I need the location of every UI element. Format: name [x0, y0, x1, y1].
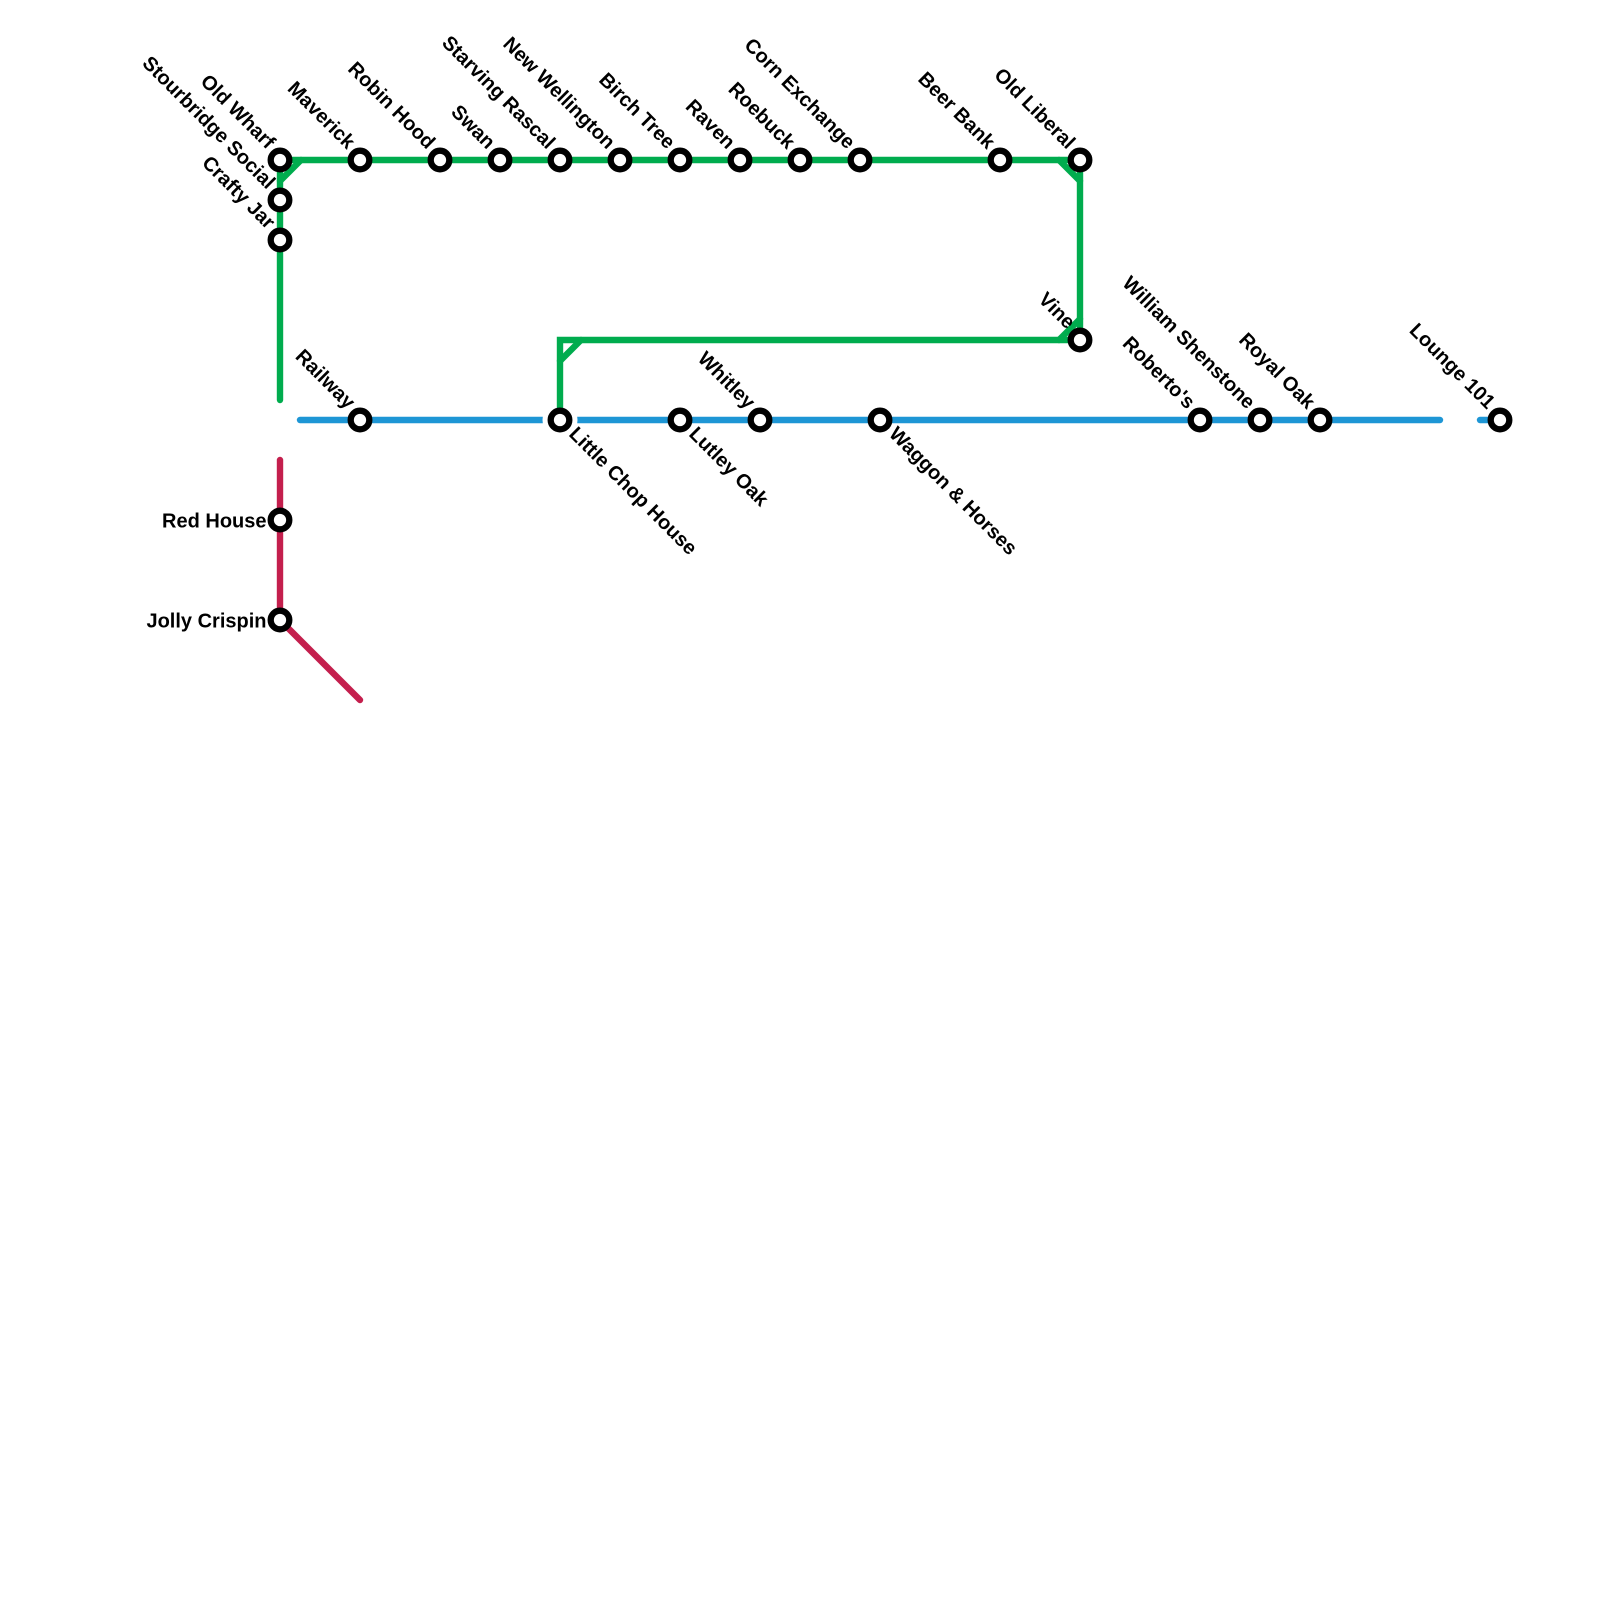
red line: Red House / Jolly Crispin branch: [280, 460, 360, 700]
station Crafty Jar: [271, 231, 290, 250]
station Little Chop House: [551, 411, 570, 430]
station Old Wharf: [271, 151, 290, 170]
station Birch Tree: [671, 151, 690, 170]
station Royal Oak: [1311, 411, 1330, 430]
station Red House: [271, 511, 290, 530]
station Beer Bank: [991, 151, 1010, 170]
green chamfer at Old Wharf corner: [280, 160, 301, 181]
station Jolly Crispin: [271, 611, 290, 630]
station Whitley: [751, 411, 770, 430]
green chamfer at Old Liberal corner: [1059, 160, 1080, 181]
svg-text:Red House: Red House: [162, 510, 266, 532]
station Old Liberal: [1071, 151, 1090, 170]
station Roberto's: [1191, 411, 1210, 430]
station Raven: [731, 151, 750, 170]
station New Wellington: [611, 151, 630, 170]
station Railway: [351, 411, 370, 430]
station Corn Exchange: [851, 151, 870, 170]
station Swan: [491, 151, 510, 170]
station Lutley Oak: [671, 411, 690, 430]
svg-text:Jolly Crispin: Jolly Crispin: [146, 610, 266, 632]
station Maverick: [351, 151, 370, 170]
station Waggon &amp; Horses: [871, 411, 890, 430]
green chamfer above Little Chop House: [560, 340, 581, 361]
blue line: stub to Lounge 101: [1480, 417, 1500, 423]
station Starving Rascal: [551, 151, 570, 170]
station William Shenstone: [1251, 411, 1270, 430]
station Robin Hood: [431, 151, 450, 170]
station Roebuck: [791, 151, 810, 170]
station Lounge 101: [1491, 411, 1510, 430]
station Vine: [1071, 331, 1090, 350]
blue line: main horizontal Railway-Royal Oak: [300, 417, 1440, 423]
station Stourbridge Social: [271, 191, 290, 210]
green line: branch Old Wharf down through Stourbridge Social and Crafty Jar: [277, 160, 283, 400]
white interchange casing at Little Chop House: [543, 403, 578, 438]
green line: main route Old Wharf to Little Chop House: [280, 160, 1080, 420]
green chamfer at Vine corner: [1059, 319, 1080, 340]
